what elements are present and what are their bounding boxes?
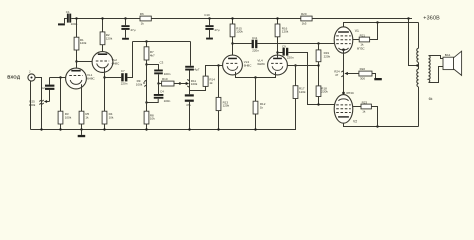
node plate VL1 to grid VL2 (75, 60, 77, 62)
wire R19 to R18 + stub (318, 62, 320, 86)
tube V2 (output pentode) (334, 91, 357, 123)
resistor R1 (74, 37, 87, 50)
svg-text:6Н8С: 6Н8С (257, 62, 266, 66)
capacitor C1 (66, 10, 78, 26)
wire R3 to ground rail (60, 124, 62, 130)
svg-text:6П3С: 6П3С (357, 47, 365, 51)
svg-text:R20: R20 (301, 12, 307, 16)
wire shared cathode (236, 72, 276, 78)
svg-text:120k: 120k (106, 36, 113, 40)
capacitor C11 (to V1 grid) (252, 36, 260, 53)
svg-text:120k: 120k (80, 41, 87, 45)
svg-text:1k: 1k (141, 22, 145, 26)
node R7 bottom (146, 60, 148, 65)
resistor R21 (V1 screen) (353, 23, 378, 47)
svg-text:C9: C9 (282, 45, 286, 49)
svg-text:6Н8С: 6Н8С (87, 76, 96, 80)
wire +360V to center tap (409, 19, 419, 66)
wire jack to pot R25 (35, 78, 41, 99)
node R23 drop (376, 125, 378, 127)
wire R8 to ground rail (146, 124, 148, 130)
capacitor C4 (154, 84, 171, 104)
svg-text:C1: C1 (66, 10, 70, 14)
ground (top-left, near C1) (58, 19, 67, 26)
svg-text:C3: C3 (160, 60, 164, 64)
capacitor C9 (to V2 grid) (282, 45, 294, 60)
capacitor C2 (wiper coupling) (41, 78, 54, 104)
connector J (input jack) (28, 70, 35, 82)
wire R22 to ground (372, 74, 376, 79)
potentiometer R11 wiper arrow (180, 79, 198, 87)
svg-text:120k: 120k (223, 104, 230, 108)
tube V1 (output pentode) (334, 27, 365, 53)
node V1 grid / R19 (317, 42, 319, 44)
wire R4 to ground rail (104, 124, 106, 130)
svg-text:C7: C7 (121, 69, 125, 73)
svg-text:100n: 100n (164, 99, 171, 103)
ground (C10) (206, 38, 213, 40)
wire top rail right (312, 18, 412, 20)
resistor R10 (159, 77, 180, 86)
wire R1 to plate VL1 (76, 50, 78, 70)
node tone row left (157, 82, 159, 84)
svg-text:220k: 220k (321, 90, 328, 94)
wire VL2 cathode down (104, 68, 106, 111)
potentiometer R9 (on R7 column) (136, 65, 147, 112)
wire R17 to ground rail end (295, 99, 297, 130)
svg-text:220n: 220n (252, 49, 259, 53)
wire to C9 (278, 52, 283, 54)
wire cathode out to C7 (105, 77, 122, 79)
resistor R3 (58, 111, 72, 124)
svg-text:300: 300 (360, 77, 365, 81)
node plate VL3 coupling (231, 42, 233, 44)
wire R15 to plate VL3 (232, 37, 234, 58)
svg-text:4k7: 4k7 (150, 54, 155, 58)
node ground rail junctions (40, 128, 42, 130)
svg-text:1k: 1k (209, 81, 213, 85)
node R7 top (145, 40, 147, 42)
svg-text:220n: 220n (121, 82, 128, 86)
transformer primary winding (417, 23, 419, 127)
wire R2 feed (102, 19, 104, 32)
node center tap (416, 64, 418, 66)
capacitor C3 (154, 60, 171, 76)
svg-text:ВХОД: ВХОД (7, 74, 21, 79)
resistor R6 (140, 12, 152, 25)
capacitor C6 (185, 66, 200, 72)
resistor R13 (216, 66, 230, 111)
node R17 top (on VL4 grid line) (294, 64, 296, 66)
svg-text:47μ: 47μ (130, 28, 135, 32)
wire R12 to ground rail (255, 114, 257, 130)
wire pot R25 to ground rail (41, 107, 43, 129)
resistor R2 (100, 32, 113, 45)
svg-text:R23: R23 (362, 100, 368, 104)
svg-text:ВА1: ВА1 (445, 53, 451, 57)
svg-text:1k: 1k (260, 105, 264, 109)
svg-text:C11: C11 (252, 36, 258, 40)
tube VL4 (phase splitter) (257, 55, 287, 75)
capacitor C5 (rail decoupling) (121, 17, 135, 38)
potentiometer R24 (cathode balance) (334, 50, 359, 93)
wire VL1 cathode to R5 (81, 84, 83, 111)
node grid line / R3 (59, 76, 61, 78)
wire grid line VL1 (50, 77, 66, 79)
capacitor C7 (121, 69, 128, 86)
wire R1 feed (76, 19, 78, 38)
svg-text:47μ: 47μ (214, 28, 219, 32)
wire R2 to plate VL2 (102, 45, 104, 54)
wire R5 to ground rail (81, 124, 83, 130)
node screen feed V1 (376, 21, 378, 23)
resistor R23 (V2 screen) (353, 100, 378, 126)
svg-text:47μ: 47μ (186, 103, 191, 107)
wire R16 to plate VL4 (277, 37, 279, 58)
wire secondary to speaker (429, 56, 444, 59)
resistor R19 (316, 44, 331, 62)
svg-text:100n: 100n (164, 72, 171, 76)
wire V1 plate to transformer (344, 23, 419, 27)
resistor R16 (275, 17, 289, 37)
node cathode follower out (103, 76, 105, 78)
wire R13 to ground rail (218, 111, 220, 130)
capacitor C10 (rail decoupling) (204, 13, 220, 37)
wire C11 to V1 grid (257, 43, 335, 45)
tube VL1 (input triode) (66, 68, 96, 89)
tube VL3 (phase splitter) (223, 55, 253, 75)
svg-text:47: 47 (335, 73, 339, 77)
svg-text:120k: 120k (236, 30, 243, 34)
wire to C3 (147, 65, 159, 70)
tube VL2 (cathode follower) (92, 52, 120, 73)
ground (R22) (374, 78, 382, 80)
resistor R8 (144, 111, 155, 124)
resistor R5 (VL1 cathode) (79, 111, 89, 124)
resistor R15 (230, 17, 243, 37)
svg-text:10k: 10k (150, 117, 155, 121)
wire R18 to V2 grid line (318, 97, 320, 105)
svg-text:220k: 220k (324, 54, 331, 58)
svg-text:V1: V1 (355, 29, 359, 33)
svg-text:1k: 1k (85, 116, 89, 120)
node divider junction (317, 64, 319, 66)
svg-text:120k: 120k (299, 90, 306, 94)
node splitter grid / R13 (217, 64, 219, 66)
svg-text:100k: 100k (65, 116, 72, 120)
wire tone rail (133, 41, 191, 43)
svg-text:100k: 100k (136, 83, 143, 87)
svg-text:R10: R10 (162, 77, 168, 81)
wire C7 to tone rail riser (127, 42, 132, 78)
svg-text:220n: 220n (287, 56, 294, 60)
wire R14 to splitter grid (206, 66, 223, 77)
svg-text:100k: 100k (191, 82, 198, 86)
resistor R22 (359, 67, 372, 80)
ground (C5) (122, 38, 129, 40)
resistor R12 (253, 78, 266, 115)
svg-text:R21: R21 (360, 33, 366, 37)
svg-text:10k: 10k (109, 116, 114, 120)
svg-text:100k: 100k (29, 103, 36, 107)
svg-text:1k: 1k (362, 110, 366, 114)
transformer secondary winding (429, 56, 431, 83)
ground (main rail) (78, 130, 86, 138)
svg-text:6П3С: 6П3С (346, 91, 354, 95)
wire C8 to ground rail (189, 102, 191, 130)
wire C9 to V2 grid (descender) (288, 53, 336, 105)
wire C4 jog to R8 column (147, 99, 159, 103)
wire C3 to node (158, 74, 160, 83)
node C4/R8 (145, 101, 147, 103)
potentiometer R11 element (189, 71, 191, 95)
loudspeaker BA1 (443, 51, 462, 75)
svg-text:R6: R6 (140, 12, 144, 16)
resistor R18 (316, 86, 328, 97)
node R10 right / wiper R11 (179, 82, 181, 84)
wire R14 bottom tie (190, 86, 206, 90)
wire VL4 grid to divider junction (287, 65, 318, 67)
svg-text:C2: C2 (41, 86, 45, 90)
resistor R20 (301, 12, 312, 25)
resistor R7 (144, 42, 155, 61)
node R18 bottom (317, 103, 319, 105)
svg-text:6k: 6k (429, 97, 433, 101)
svg-text:120k: 120k (282, 30, 289, 34)
resistor R4 (VL2 cathode) (102, 111, 114, 124)
node plate VL4 coupling (276, 51, 278, 53)
svg-text:+360В: +360В (423, 16, 440, 22)
svg-text:1k: 1k (360, 43, 364, 47)
resistor R17 (293, 66, 306, 99)
svg-text:V2: V2 (353, 119, 357, 123)
svg-text:1k5: 1k5 (302, 22, 307, 26)
svg-text:4μ7: 4μ7 (194, 67, 199, 71)
wire R3 feed (60, 78, 62, 112)
wire coupling line to C11 (233, 43, 252, 45)
wire top rail middle (151, 18, 300, 20)
wire C6 riser (190, 42, 192, 66)
wire V2 plate to transformer (344, 123, 419, 126)
node cathode / R12 (254, 76, 256, 78)
resistor R14 (203, 76, 215, 86)
wire top supply rail (71, 18, 140, 20)
svg-text:C4: C4 (160, 89, 164, 93)
svg-text:6Н8С: 6Н8С (244, 63, 253, 67)
node +360V (407, 17, 409, 19)
svg-text:C10: C10 (204, 13, 210, 17)
wire ground rail (bottom) (31, 99, 296, 130)
capacitor C8 (185, 94, 194, 107)
potentiometer R25 (29, 98, 44, 107)
svg-text:R22: R22 (360, 67, 366, 71)
svg-text:6Н8С: 6Н8С (112, 61, 121, 65)
